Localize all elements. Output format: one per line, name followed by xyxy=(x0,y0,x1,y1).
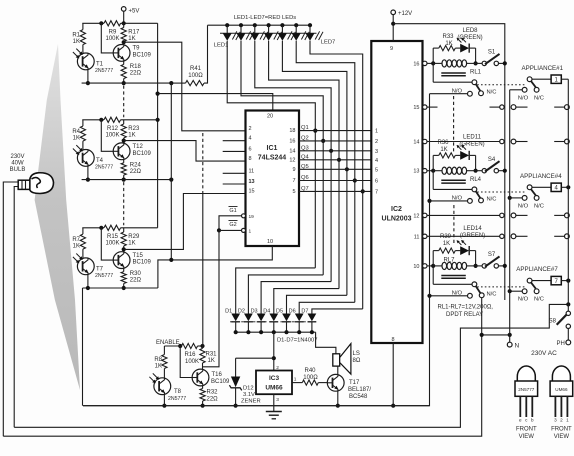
svg-text:6: 6 xyxy=(375,179,378,185)
wire IC1 pin 13 stub xyxy=(223,183,246,185)
wire T17 emitter xyxy=(336,391,340,408)
node R24 bus xyxy=(122,178,126,182)
svg-text:R39: R39 xyxy=(440,234,452,240)
label IC2 pin 13 xyxy=(413,169,419,175)
svg-text:22Ω: 22Ω xyxy=(130,169,142,175)
svg-text:22Ω: 22Ω xyxy=(207,397,219,403)
resistor R12 100K xyxy=(104,117,121,122)
wire LED4 cathode to Q4 column xyxy=(269,41,339,289)
svg-text:13: 13 xyxy=(249,179,255,185)
svg-text:+12V: +12V xyxy=(398,11,412,17)
svg-text:1K: 1K xyxy=(440,147,447,153)
svg-text:T7: T7 xyxy=(96,266,104,272)
label IC3 pin 2 xyxy=(276,365,279,371)
relay RL1 pole xyxy=(472,80,481,91)
wire branch top left xyxy=(433,154,439,156)
wire Q2 column to diode D2 xyxy=(248,275,323,314)
label R41 xyxy=(188,66,203,79)
svg-text:(GREEN): (GREEN) xyxy=(457,35,482,41)
transistor T15 BC109 xyxy=(113,252,130,269)
label IC2 pin 8 xyxy=(391,337,394,343)
wire bus to R41 xyxy=(173,82,186,84)
resistor R32 22Ω xyxy=(200,386,205,406)
wire base T12 xyxy=(101,120,113,152)
label IC1 pin 16 xyxy=(289,138,295,144)
svg-text:S1: S1 xyxy=(488,50,496,56)
node appliance feed PH rail xyxy=(566,185,570,189)
transistor T12 BC109 xyxy=(113,143,130,160)
LED LED5 red xyxy=(278,23,295,41)
svg-text:T9: T9 xyxy=(133,46,141,52)
diode D4 1N4007 xyxy=(269,314,278,335)
node +5V stage2 rail xyxy=(156,118,160,122)
svg-text:D6: D6 xyxy=(289,309,296,315)
svg-text:R8: R8 xyxy=(154,357,162,363)
label R18 xyxy=(130,64,142,77)
svg-text:ULN2003: ULN2003 xyxy=(382,216,412,223)
svg-text:2N5777: 2N5777 xyxy=(95,68,113,74)
appliance 4 pole xyxy=(527,185,536,195)
wire IC2 output to relay RL7 xyxy=(427,265,433,267)
label IC1 pin 15 xyxy=(249,189,255,195)
svg-text:3: 3 xyxy=(375,149,378,155)
wire IC2 pin 11 omitted channel xyxy=(423,234,505,238)
node emitter T4 bus xyxy=(86,178,90,182)
svg-text:15: 15 xyxy=(249,189,255,195)
transistor T17 BEL187 xyxy=(327,374,344,391)
label IC2 pin 2 xyxy=(375,139,378,145)
svg-text:LED7: LED7 xyxy=(321,40,336,46)
dotted gang link RL7 xyxy=(477,286,524,288)
node Q2 junction xyxy=(321,139,325,143)
svg-text:D1: D1 xyxy=(225,309,232,315)
label R4 xyxy=(72,129,80,142)
wire branch top left xyxy=(433,47,439,49)
wire ground rail xyxy=(83,405,430,407)
label IC1 pin 12 xyxy=(289,157,295,163)
appliance omitted row pin 11 xyxy=(511,234,569,239)
svg-text:4: 4 xyxy=(375,158,378,164)
svg-text:D5: D5 xyxy=(276,309,283,315)
node phase line on PH rail xyxy=(566,302,570,306)
svg-text:8: 8 xyxy=(391,337,394,343)
label IC1 pin 13 xyxy=(249,179,255,185)
node relay RL4 right xyxy=(474,169,478,173)
label R40 xyxy=(303,368,318,381)
svg-text:1K: 1K xyxy=(445,41,452,47)
relay RL7 pole xyxy=(472,282,481,293)
svg-text:12: 12 xyxy=(413,213,419,219)
svg-text:T1: T1 xyxy=(96,61,104,67)
svg-text:RL1: RL1 xyxy=(470,70,482,76)
resistor R24 22Ω xyxy=(121,160,126,180)
wire T16 base xyxy=(180,346,192,378)
wire N/O to common column xyxy=(430,295,468,297)
wire R41 to LED bus xyxy=(204,25,208,83)
svg-text:N/O: N/O xyxy=(518,297,529,303)
node R18 bus xyxy=(122,81,126,85)
wire emitter T1 xyxy=(87,69,89,83)
label IC2 pin 3 xyxy=(375,149,378,155)
node switch S4 rail xyxy=(503,169,507,173)
svg-text:13: 13 xyxy=(413,169,419,175)
svg-text:10: 10 xyxy=(267,239,273,245)
wire 230V AC phase line xyxy=(14,304,568,427)
node N/O column xyxy=(427,294,431,298)
LED LED1 red xyxy=(223,23,240,41)
label IC2 pin 9 xyxy=(390,46,393,52)
svg-text:1: 1 xyxy=(294,377,297,383)
resistor R33 1K xyxy=(439,46,456,51)
svg-text:APPLIANCE#1: APPLIANCE#1 xyxy=(521,65,563,72)
appliance omitted row pin 14 xyxy=(511,139,569,144)
svg-text:FRONT: FRONT xyxy=(551,427,572,433)
svg-text:R1: R1 xyxy=(72,32,80,38)
node stage3 divider xyxy=(99,226,103,230)
wire zener to pin2 line xyxy=(236,357,274,359)
label IC1 pin 2 xyxy=(249,126,252,132)
svg-text:11: 11 xyxy=(249,168,255,174)
wire Q7 column to diode D7 xyxy=(312,309,363,314)
resistor R1 1K xyxy=(80,23,85,53)
switch S4 xyxy=(476,161,505,173)
label N/O appliance xyxy=(518,203,529,209)
label IC2 pin 10 xyxy=(413,264,419,270)
label IC2 pin 5 xyxy=(375,167,378,173)
wire IC2 pin 15 omitted channel xyxy=(423,105,505,109)
node relay RL7 left xyxy=(431,264,435,268)
node pin10 line ground column xyxy=(169,258,173,262)
svg-text:RL1-RL7=12V,200Ω,: RL1-RL7=12V,200Ω, xyxy=(438,305,494,311)
svg-text:BC109: BC109 xyxy=(211,379,230,385)
label 74LS244 xyxy=(258,155,287,162)
dotted gang link RL4 xyxy=(477,191,524,193)
svg-text:16: 16 xyxy=(289,138,295,144)
wire relay block right xyxy=(475,251,477,266)
svg-text:R36: R36 xyxy=(437,140,449,146)
wire relay contact arm xyxy=(433,81,471,83)
LED LED6 red xyxy=(292,23,309,41)
wire stage3 emitter bus xyxy=(83,286,158,290)
svg-text:IC1: IC1 xyxy=(267,145,278,152)
svg-text:100Ω: 100Ω xyxy=(188,73,203,79)
label N/O appliance xyxy=(518,95,529,101)
svg-text:N/C: N/C xyxy=(487,197,497,203)
wire relay block right xyxy=(475,155,477,170)
svg-text:R41: R41 xyxy=(190,66,202,72)
svg-text:2: 2 xyxy=(276,365,279,371)
node +5V stage1 rail xyxy=(122,21,126,25)
label LED7 xyxy=(321,40,336,46)
svg-text:22Ω: 22Ω xyxy=(130,70,142,76)
transistor T9 BC109 xyxy=(113,45,130,62)
label IC1 pin 1 xyxy=(249,229,252,235)
svg-text:230V AC: 230V AC xyxy=(531,350,557,357)
pin bubble IC2 output S7 xyxy=(423,264,427,268)
wire IC2 pin 8 ground xyxy=(392,343,394,406)
label relay note xyxy=(438,305,494,311)
loudspeaker LS 8Ω xyxy=(333,344,351,375)
appliance 4 N/C contact xyxy=(534,196,539,201)
wire LED8 to right node xyxy=(470,47,476,49)
zener D12 3.1V xyxy=(229,358,241,406)
relay coil RL4 xyxy=(433,167,475,183)
label IC1 pin 9 xyxy=(292,167,295,173)
node Q4 junction xyxy=(337,158,341,162)
label R32 xyxy=(207,390,219,403)
svg-text:UM66: UM66 xyxy=(265,385,283,392)
node Q3 junction xyxy=(329,149,333,153)
label IC1 pin 11 xyxy=(249,168,255,174)
dashed omitted channels upper xyxy=(453,96,455,153)
appliance 4 N/O contact xyxy=(522,196,527,201)
LED LED7 red xyxy=(306,23,323,41)
dashed continuation stage2 xyxy=(123,182,125,225)
dashed continuation stage1 xyxy=(123,86,125,118)
wire stage1 output to IC1 pin 2 xyxy=(124,42,246,131)
svg-text:22Ω: 22Ω xyxy=(130,278,142,284)
dashed enable column xyxy=(202,133,204,192)
svg-text:1: 1 xyxy=(375,129,378,135)
svg-text:T12: T12 xyxy=(133,144,144,150)
resistor R30 22Ω xyxy=(121,269,126,289)
svg-text:1K: 1K xyxy=(128,133,135,139)
resistor R4 1K xyxy=(80,120,85,150)
svg-text:BC109: BC109 xyxy=(133,260,152,266)
label IC2 pin 11 xyxy=(414,234,420,240)
node R32 ground xyxy=(201,404,205,408)
svg-text:8Ω: 8Ω xyxy=(353,358,361,364)
relay RL1 N/O contact xyxy=(468,91,473,96)
label RL4 xyxy=(470,177,482,183)
node relay RL1 left xyxy=(431,61,435,65)
node neutral branch xyxy=(480,333,512,337)
svg-text:D2: D2 xyxy=(238,309,245,315)
appliance 1 N/C contact xyxy=(534,87,539,92)
wire N/O to common column xyxy=(430,93,468,95)
svg-text:18: 18 xyxy=(289,128,295,134)
label S4 xyxy=(488,157,496,163)
label R23 xyxy=(128,126,140,139)
switch S7 xyxy=(476,256,505,268)
label T15 xyxy=(133,253,152,266)
svg-text:APPLIANCE#7: APPLIANCE#7 xyxy=(516,266,558,273)
wire LED11 to right node xyxy=(470,154,476,156)
svg-text:1K: 1K xyxy=(128,36,135,42)
wire enable column xyxy=(202,192,204,346)
wire base T9 xyxy=(101,23,113,53)
svg-text:D4: D4 xyxy=(263,309,270,315)
node N/O column xyxy=(427,199,431,203)
label RL7 xyxy=(443,258,455,264)
svg-text:T8: T8 xyxy=(174,389,182,395)
resistor R8 1K xyxy=(162,346,167,378)
svg-text:40W: 40W xyxy=(11,161,24,167)
resistor R16 100K xyxy=(182,343,198,348)
wire Q4 xyxy=(299,159,371,161)
label APPLIANCE#7 xyxy=(516,266,558,273)
wire IC2 pin 12 omitted channel xyxy=(423,213,505,217)
label IC1 pin 4 xyxy=(249,136,252,142)
wire IC3 pin 3 xyxy=(273,394,275,411)
wire pin1 to tie xyxy=(219,229,242,231)
wire emitter T7 xyxy=(87,274,89,288)
wire Q3 xyxy=(299,150,371,152)
wire IC1 pin 10 to ground xyxy=(158,246,272,288)
svg-text:19: 19 xyxy=(249,214,255,220)
wire Q5 xyxy=(299,168,371,170)
relay coil RL7 xyxy=(433,262,475,278)
appliance omitted row pin 12 xyxy=(511,213,569,218)
wire stage2 emitter bus xyxy=(82,179,173,181)
svg-text:7: 7 xyxy=(292,178,295,184)
label IC3 pin 3 xyxy=(276,397,279,403)
label D1 xyxy=(225,309,232,315)
svg-text:PH: PH xyxy=(556,341,564,347)
svg-text:100Ω: 100Ω xyxy=(303,375,318,381)
svg-text:N/C: N/C xyxy=(487,292,497,298)
svg-text:FRONT: FRONT xyxy=(516,427,537,433)
label IC2 pin 6 xyxy=(375,179,378,185)
label D4 xyxy=(263,309,270,315)
svg-text:T16: T16 xyxy=(212,372,223,378)
label IC1 pin 5 xyxy=(292,189,295,195)
svg-text:1: 1 xyxy=(566,418,569,423)
label APPLIANCE#4 xyxy=(520,173,562,180)
node relay RL1 right xyxy=(474,61,478,65)
svg-text:3: 3 xyxy=(554,418,557,423)
svg-text:R23: R23 xyxy=(128,126,140,132)
resistor R18 22Ω xyxy=(121,61,126,83)
svg-text:74LS244: 74LS244 xyxy=(258,155,287,162)
label R7 xyxy=(72,237,80,250)
svg-text:R15: R15 xyxy=(107,234,119,240)
label D12 xyxy=(241,386,261,405)
svg-text:T15: T15 xyxy=(133,253,144,259)
svg-text:IC3: IC3 xyxy=(269,375,280,382)
phototransistor T8 2N5777 xyxy=(149,373,170,394)
label R24 xyxy=(130,162,142,175)
phototransistor T1 2N5777 xyxy=(73,49,94,70)
label DPDT RELAY xyxy=(446,312,483,318)
label Q2 xyxy=(301,135,309,141)
svg-text:1K: 1K xyxy=(73,39,80,45)
svg-text:7: 7 xyxy=(375,189,378,195)
label S7 xyxy=(488,252,496,258)
label Q1 xyxy=(301,125,309,131)
LED LED4 red xyxy=(264,23,281,41)
wire Q5 column to diode D5 xyxy=(287,295,347,313)
svg-text:BEL187/: BEL187/ xyxy=(348,387,371,393)
wire LED7 cathode to Q7 column xyxy=(310,41,363,309)
svg-text:1K: 1K xyxy=(73,243,80,249)
label N/C appliance xyxy=(534,95,544,101)
wire stage2 output to IC1 pin 8 xyxy=(124,141,246,162)
label D5 xyxy=(276,309,283,315)
label LED11 xyxy=(459,135,484,148)
package 2N5777 front view xyxy=(515,366,538,440)
svg-text:ZENER: ZENER xyxy=(241,399,261,405)
label N/C appliance xyxy=(534,203,544,209)
svg-text:3: 3 xyxy=(276,397,279,403)
wire Q3 column to diode D3 xyxy=(261,282,331,314)
label IC2 pin 15 xyxy=(413,105,419,111)
svg-text:2: 2 xyxy=(249,126,252,132)
label ULN2003 xyxy=(382,216,412,223)
terminal +12V xyxy=(391,10,396,24)
svg-text:ENABLE: ENABLE xyxy=(156,340,180,346)
svg-text:10: 10 xyxy=(413,264,419,270)
wire Q2 xyxy=(299,140,371,142)
wire stage1 emitter bus xyxy=(82,82,173,84)
label T17 xyxy=(348,380,371,400)
LED LED14 green xyxy=(457,240,470,255)
node emitter T1 bus xyxy=(86,81,90,85)
pin bubble IC2 output S4 xyxy=(423,169,427,173)
svg-text:R29: R29 xyxy=(128,234,140,240)
appliance omitted row pin 15 xyxy=(511,105,569,110)
label T16 xyxy=(211,372,230,385)
appliance 1 pole xyxy=(527,77,536,87)
label IC3 pin 1 xyxy=(294,377,297,383)
label N/O relay xyxy=(452,196,463,202)
svg-text:1K: 1K xyxy=(128,241,135,247)
resistor R40 100Ω xyxy=(302,380,318,385)
svg-text:(GREEN): (GREEN) xyxy=(459,142,484,148)
svg-text:1K: 1K xyxy=(208,358,215,364)
label 230V AC xyxy=(531,350,557,357)
svg-text:R30: R30 xyxy=(130,271,142,277)
label T9 xyxy=(133,46,152,59)
node D12 ground xyxy=(234,404,238,408)
node stage2 output xyxy=(122,139,126,143)
label G1 with overline xyxy=(229,207,238,215)
ground symbol xyxy=(266,412,282,419)
svg-text:R40: R40 xyxy=(304,368,316,374)
svg-text:BC548: BC548 xyxy=(349,394,368,400)
dotted gang link RL1 xyxy=(477,84,524,86)
terminal +5V xyxy=(121,7,126,24)
svg-text:G2: G2 xyxy=(229,222,236,228)
label R33 xyxy=(442,34,454,47)
appliance 7 pole xyxy=(527,278,536,288)
node switch S1 rail xyxy=(503,61,507,65)
label D3 xyxy=(251,309,258,315)
wire appliance N/O to N rail xyxy=(510,290,523,292)
label S1 xyxy=(488,50,496,56)
node appliance N/O rail xyxy=(508,196,512,200)
wire +12V to switch rail xyxy=(393,24,505,300)
label UM66 xyxy=(265,385,283,392)
svg-text:RL7: RL7 xyxy=(443,258,455,264)
switch S8 xyxy=(557,311,571,340)
label T12 xyxy=(133,144,152,157)
svg-text:APPLIANCE#4: APPLIANCE#4 xyxy=(520,173,562,180)
svg-text:1K: 1K xyxy=(443,241,450,247)
wire N/O column to ground rail xyxy=(83,94,430,406)
phototransistor T4 2N5777 xyxy=(73,145,94,166)
wire IC3 pin 1 to R40 xyxy=(292,382,302,384)
svg-text:S4: S4 xyxy=(488,157,496,163)
node Q1 junction xyxy=(313,129,317,133)
label LS xyxy=(353,351,361,364)
svg-text:R17: R17 xyxy=(128,30,140,36)
label IC1 pin 10 xyxy=(267,239,273,245)
label R31 xyxy=(206,352,218,365)
svg-text:5: 5 xyxy=(292,189,295,195)
resistor R29 1K xyxy=(121,228,126,250)
svg-text:R32: R32 xyxy=(207,390,219,396)
